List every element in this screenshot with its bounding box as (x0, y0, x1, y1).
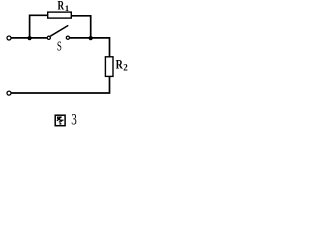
terminal T2 (lower left) (7, 91, 11, 95)
node junction dot left (28, 36, 32, 40)
resistor R1 box (48, 12, 72, 18)
svg-text:3: 3 (71, 111, 77, 128)
wire: T1 to switch left contact (11, 37, 46, 39)
wire: left vertical up to R1 branch (30, 15, 48, 38)
caption glyph 图 (drawn) (55, 115, 65, 126)
svg-text:2: 2 (123, 62, 128, 72)
switch S blade (open) (50, 25, 68, 36)
wire: R2 bottom to bottom rail and left to T2 (11, 77, 109, 93)
wire: R1 right lead down to mid rail (72, 16, 91, 38)
svg-text:S: S (57, 39, 62, 54)
switch S right contact (66, 36, 69, 39)
resistor R2 box (105, 57, 113, 77)
svg-text:1: 1 (65, 3, 69, 13)
svg-text:R: R (58, 0, 65, 12)
terminal T1 (upper left) (7, 36, 11, 40)
switch S left contact (47, 36, 50, 39)
wire: switch to R2 top (70, 38, 110, 57)
node junction dot right (89, 36, 93, 40)
